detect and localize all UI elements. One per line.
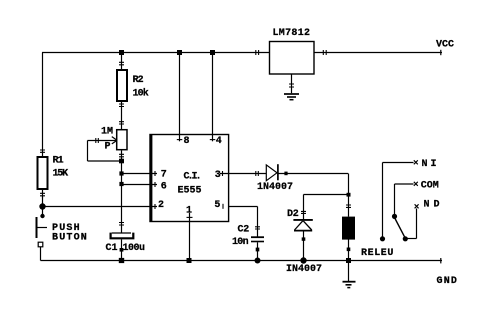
svg-text:1: 1 [186,206,192,217]
svg-text:10k: 10k [133,88,149,100]
svg-text:C.I.: C.I. [184,172,200,183]
svg-text:GND: GND [437,276,459,287]
svg-text:C1: C1 [106,243,118,254]
svg-text:C2: C2 [238,225,250,236]
svg-text:E555: E555 [178,186,202,197]
svg-text:N D: N D [424,200,440,211]
svg-text:BUTON: BUTON [52,233,88,244]
svg-text:R1: R1 [53,156,64,167]
svg-text:15K: 15K [53,169,69,180]
svg-text:COM: COM [421,181,439,192]
svg-text:P: P [105,142,111,153]
svg-text:1N4007: 1N4007 [257,182,293,193]
svg-text:6: 6 [161,182,167,193]
svg-text:1M: 1M [101,127,113,138]
svg-text:N I: N I [422,159,437,170]
svg-text:VCC: VCC [436,40,454,51]
svg-text:3: 3 [215,170,221,181]
svg-text:8: 8 [184,136,190,147]
svg-text:D2: D2 [287,209,299,220]
svg-text:RELEU: RELEU [361,248,394,259]
svg-text:10n: 10n [232,237,249,248]
svg-text:7: 7 [161,170,167,181]
svg-text:R2: R2 [133,75,144,86]
svg-text:LM7812: LM7812 [273,28,311,39]
svg-text:4: 4 [216,136,222,147]
svg-text:100u: 100u [123,243,146,254]
svg-text:2: 2 [158,200,164,211]
svg-text:IN4007: IN4007 [286,264,322,275]
svg-text:5: 5 [214,200,220,211]
